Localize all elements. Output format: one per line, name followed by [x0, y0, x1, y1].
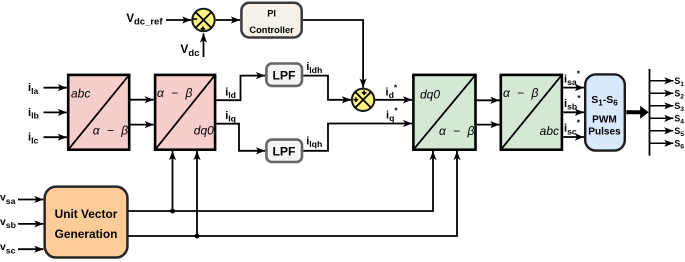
svg-text:ilqh: ilqh: [306, 135, 322, 149]
summing junction X1: [192, 9, 214, 31]
wire v_sa input: [18, 199, 43, 201]
wire i_la input: [44, 87, 67, 89]
wire S1 output: [650, 80, 674, 82]
svg-text:ilc: ilc: [28, 132, 38, 146]
svg-text:S4: S4: [674, 114, 684, 126]
wire green1 to green2 upper: [477, 99, 500, 101]
wire i_lb input: [44, 111, 67, 113]
wire Vdc_ref to summing junction X1: [166, 19, 191, 21]
block unit vector generation: [45, 187, 128, 258]
junction dot upper branch: [170, 209, 175, 214]
svg-text:abc: abc: [71, 87, 90, 101]
svg-text:S1: S1: [674, 76, 684, 88]
wire lower branch to pink2: [196, 151, 198, 236]
svg-text:ilb: ilb: [28, 107, 39, 121]
wire v_sb input: [18, 223, 43, 225]
block S1-S6 PWM pulses: [585, 74, 625, 150]
svg-text:Generation: Generation: [55, 227, 118, 241]
wire i_sa to PWM block: [563, 87, 584, 89]
block abc to alpha-beta transform: [68, 75, 130, 150]
wire LPF1 to summing junction X2: [303, 76, 351, 100]
wire PI controller to summing junction X2: [303, 20, 363, 88]
svg-text:LPF: LPF: [272, 68, 295, 82]
wire X1 to PI controller: [216, 19, 240, 21]
block PI controller: [241, 3, 301, 38]
wire i_ld to LPF1: [216, 76, 265, 101]
wire S4 output: [650, 117, 674, 119]
svg-text:α − β: α − β: [503, 86, 540, 100]
wire upper branch to pink2: [172, 151, 174, 211]
block LPF2: [266, 140, 302, 162]
wire X2 to green1 i_d*: [375, 99, 412, 101]
svg-text:ilq: ilq: [225, 110, 236, 124]
wire green1 to green2 lower: [477, 124, 500, 126]
svg-text:abc: abc: [540, 124, 559, 138]
svg-text:iq*: iq*: [386, 106, 398, 123]
svg-text:vsb: vsb: [0, 217, 16, 230]
wire S2 output: [650, 92, 674, 94]
svg-text:ildh: ildh: [306, 61, 322, 75]
svg-text:dq0: dq0: [194, 124, 214, 138]
wire alpha out pink1 to pink2: [131, 99, 154, 101]
svg-text:id*: id*: [386, 83, 398, 100]
svg-text:S2: S2: [674, 89, 684, 101]
wire beta out pink1 to pink2: [131, 124, 154, 126]
svg-text:Vdc: Vdc: [180, 42, 199, 59]
svg-text:vsc: vsc: [0, 242, 16, 255]
wire S6 output: [650, 142, 674, 144]
wire unit vector upper output to green1: [128, 151, 433, 211]
wire S3 output: [650, 105, 674, 107]
svg-text:isb*: isb*: [564, 93, 581, 112]
wire v_sc input: [18, 248, 43, 250]
block dq0 to alpha-beta transform: [413, 75, 476, 150]
wire unit vector lower output to green1: [128, 151, 457, 236]
svg-text:PI: PI: [267, 8, 276, 18]
wire i_lq to LPF2: [216, 124, 265, 151]
svg-text:Pulses: Pulses: [588, 126, 621, 137]
svg-text:Unit Vector: Unit Vector: [55, 207, 118, 221]
wire i_lc input: [44, 136, 67, 138]
svg-text:α − β: α − β: [93, 124, 130, 138]
svg-text:PWM: PWM: [592, 114, 617, 125]
wire S5 output: [650, 130, 674, 132]
svg-text:LPF: LPF: [272, 145, 295, 159]
wire Vdc to summing junction X1: [203, 33, 205, 57]
junction dot lower branch: [195, 234, 200, 239]
svg-text:Controller: Controller: [249, 25, 294, 35]
svg-text:isa*: isa*: [564, 69, 581, 88]
wire LPF2 to green1 i_q*: [303, 124, 412, 151]
svg-text:S5: S5: [674, 126, 684, 138]
svg-text:ild: ild: [225, 86, 236, 100]
summing junction X2: [352, 89, 374, 111]
svg-text:Vdc_ref: Vdc_ref: [126, 13, 163, 28]
svg-text:α − β: α − β: [157, 86, 194, 100]
wire i_sc to PWM block: [563, 136, 584, 138]
block alpha-beta to abc transform: [501, 75, 562, 150]
wire i_sb to PWM block: [563, 111, 584, 113]
svg-text:ila: ila: [28, 82, 38, 96]
svg-text:dq0: dq0: [420, 87, 440, 101]
svg-text:S3: S3: [674, 101, 684, 113]
block alpha-beta to dq0 transform: [155, 75, 215, 150]
block LPF1: [266, 64, 302, 86]
svg-text:α − β: α − β: [439, 124, 476, 138]
output bus line: [649, 69, 651, 156]
svg-text:isc*: isc*: [564, 118, 581, 137]
svg-text:vsa: vsa: [0, 193, 16, 206]
svg-text:S6: S6: [674, 139, 684, 151]
thick arrow PWM block to output bus: [626, 106, 648, 119]
